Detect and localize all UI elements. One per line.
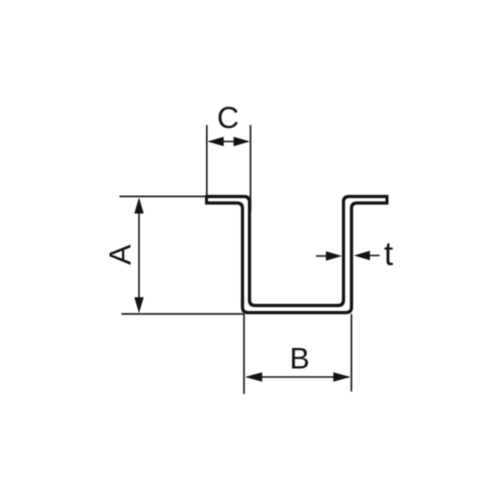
- svg-text:t: t: [384, 235, 393, 272]
- dimension C: left extension line: [206, 125, 208, 195]
- svg-text:B: B: [290, 342, 310, 375]
- dimension B: right extension line: [350, 314, 352, 392]
- dimension A: top arrowhead: [134, 197, 143, 213]
- dimension A: upper extension line: [120, 195, 242, 197]
- dimension t: left arrow shaft: [316, 255, 336, 257]
- dimension A: vertical dimension line: [138, 200, 140, 310]
- dimension t: left arrowhead pointing right: [326, 251, 342, 260]
- hat channel profile: inner contour (top surfaces of flanges and inside of U): [207, 197, 388, 306]
- dimension B: left extension line: [243, 314, 245, 394]
- dimension C: arrow shaft: [209, 141, 248, 143]
- sheet end cap right: [386, 195, 389, 205]
- dimension t: right arrowhead pointing left: [354, 251, 370, 260]
- hat channel profile: outer contour (bottom surfaces of flanges and outside of U): [207, 203, 388, 313]
- dimension B: left arrowhead: [245, 372, 262, 382]
- dimension C: right arrowhead: [234, 137, 250, 146]
- dimension B: right arrowhead: [333, 372, 350, 382]
- dimension A: lower extension line: [122, 313, 245, 315]
- dimension t: right arrow shaft: [359, 255, 380, 257]
- dimension A: bottom arrowhead: [134, 297, 143, 313]
- sheet end cap left: [205, 195, 208, 205]
- svg-text:A: A: [104, 244, 138, 265]
- dimension C: left arrowhead: [208, 137, 224, 146]
- dimension B: dimension line: [247, 376, 349, 378]
- svg-text:C: C: [217, 101, 239, 135]
- dimension C: right extension line: [250, 125, 252, 212]
